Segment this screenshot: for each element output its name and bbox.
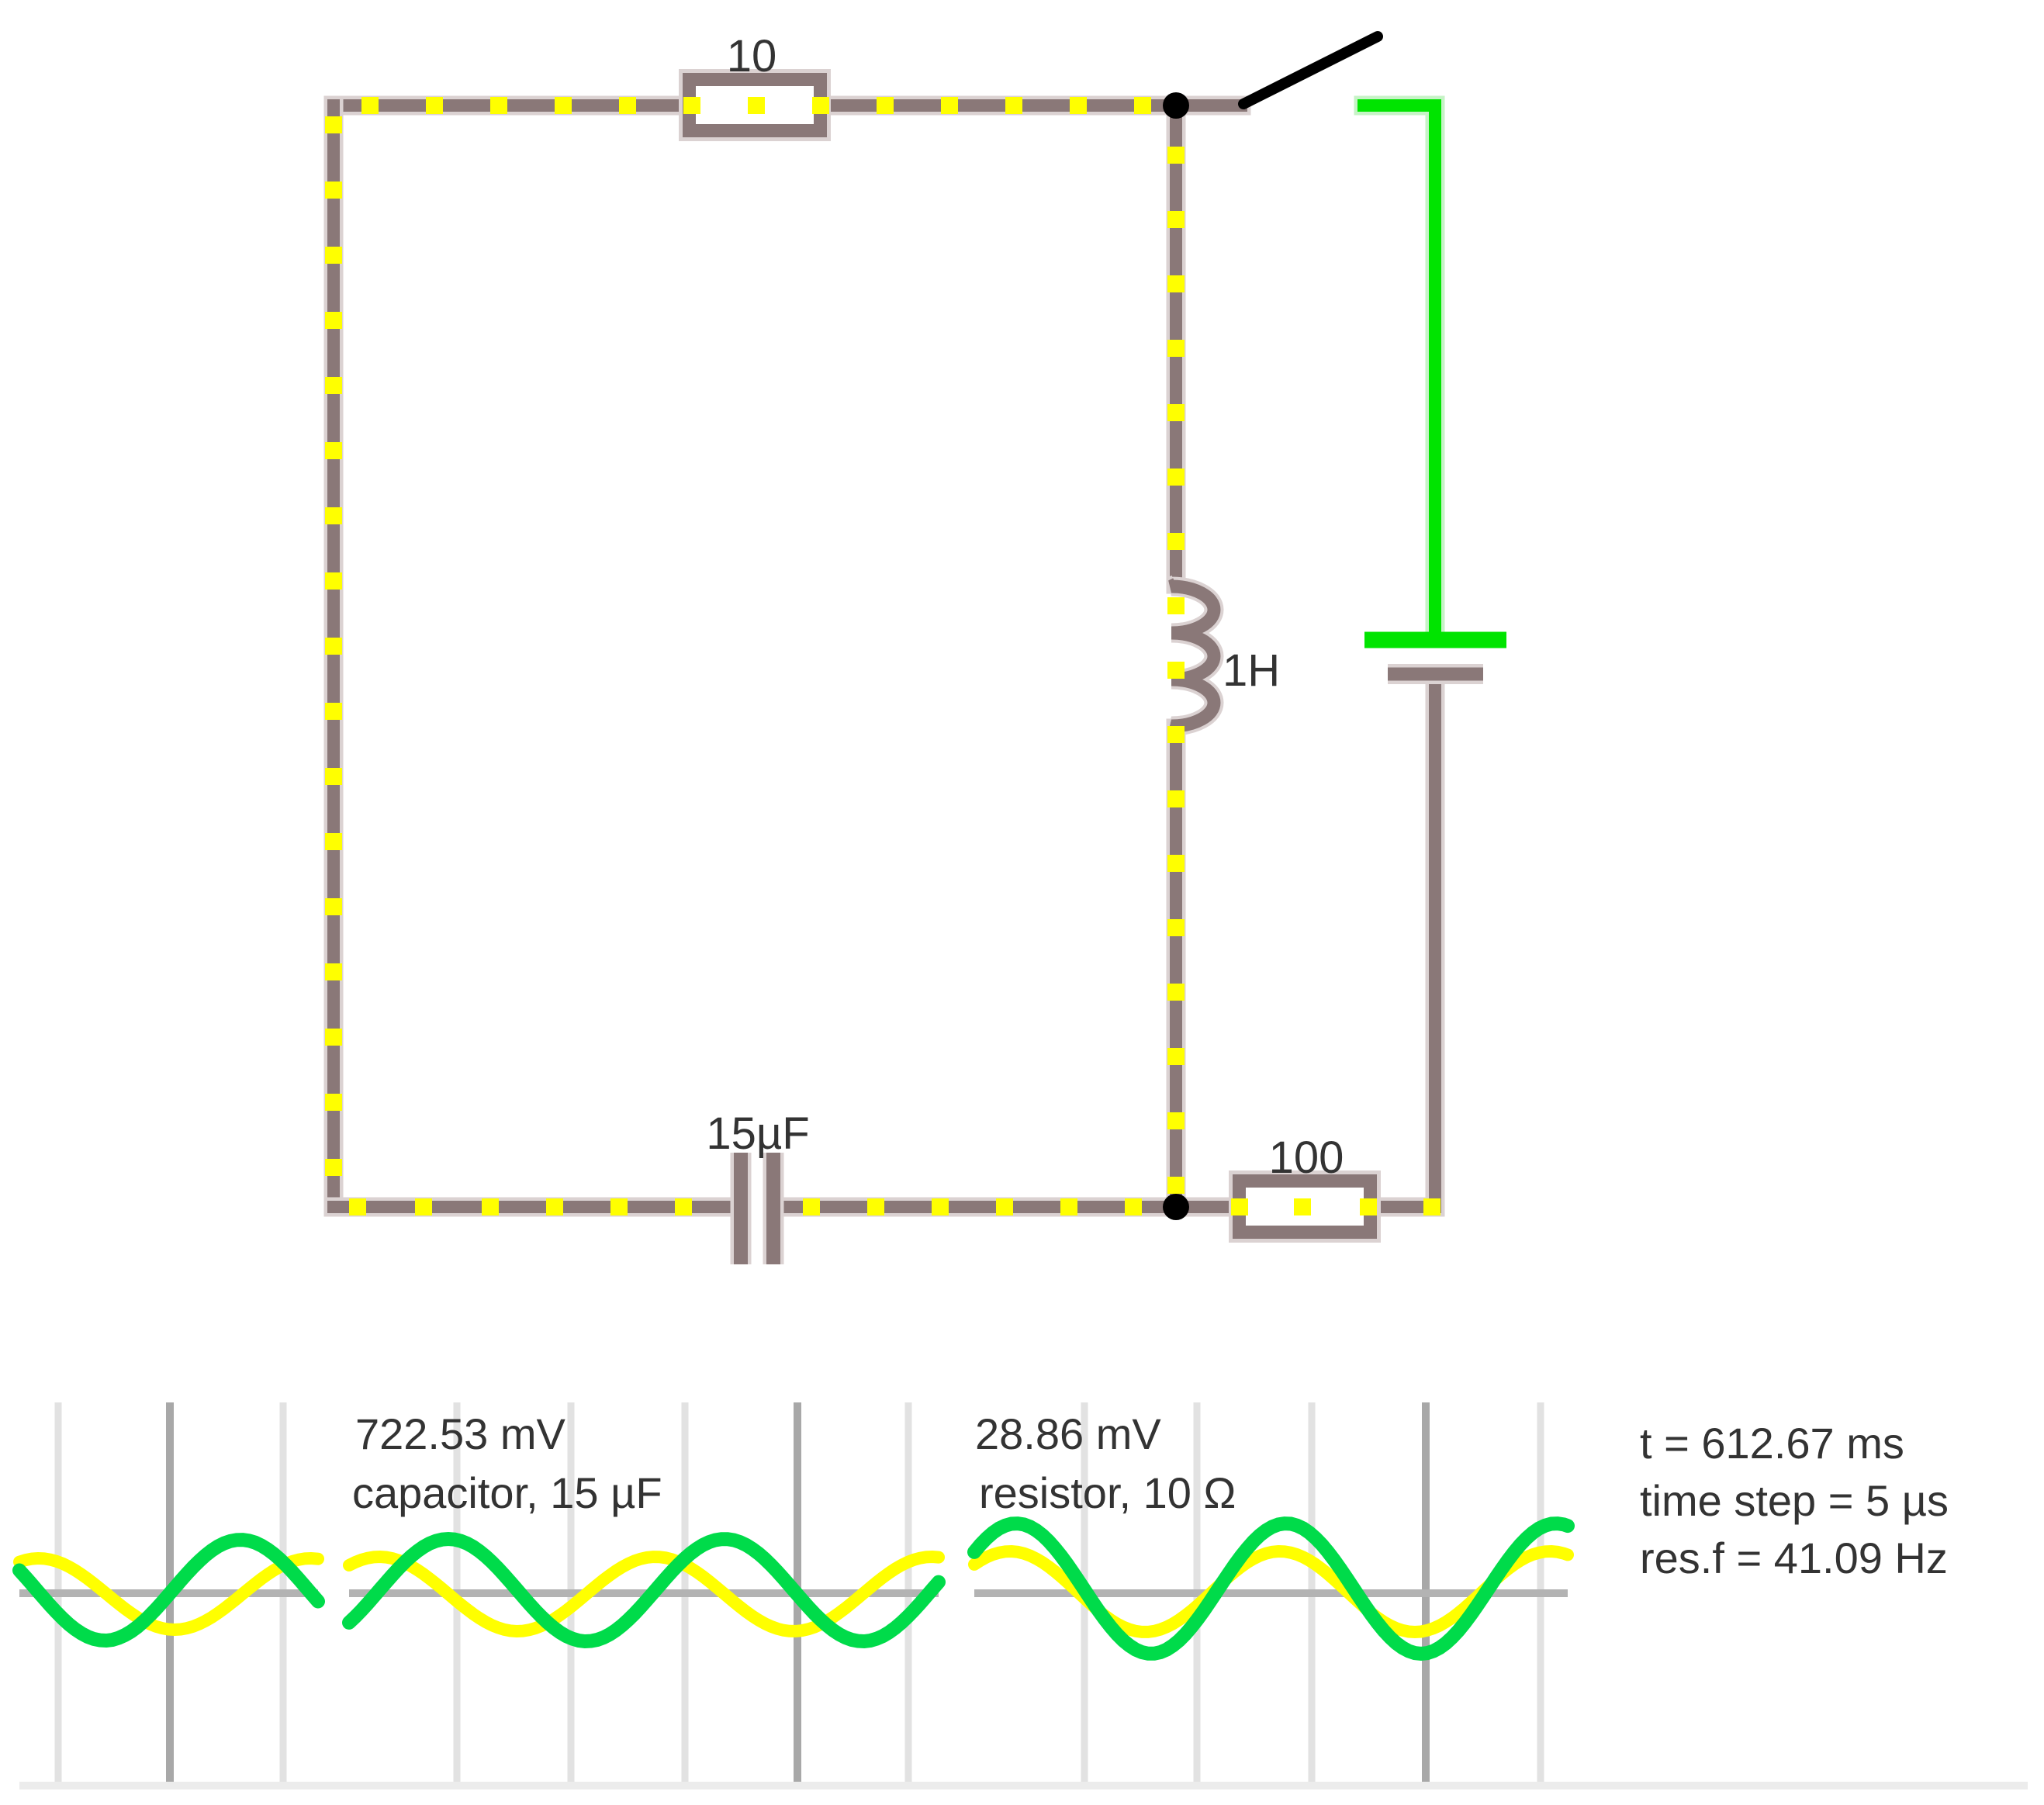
wire: bottom run, capacitor right plate through node B and R2 to bottom-right corner <box>779 1198 1435 1217</box>
scope bottom divider line <box>19 1782 2028 1789</box>
scope panel 1 current trace (yellow) <box>19 1558 318 1630</box>
wire: inductor bottom down to node B <box>1167 728 1186 1207</box>
wire: top run from top-left corner through R1 to switch pivot <box>334 96 1241 116</box>
voltage source V1 negative terminal bar (short, grey) <box>1388 664 1483 684</box>
svg-text:resistor, 10 Ω: resistor, 10 Ω <box>979 1468 1236 1517</box>
resistor R2 (100) box <box>1240 1181 1371 1233</box>
svg-text:100: 100 <box>1269 1132 1344 1183</box>
scope panel 3 current trace (yellow) <box>974 1551 1568 1632</box>
wire: bottom run, corner to capacitor left plate <box>334 1198 734 1217</box>
resistor R1 (10) box <box>690 80 821 131</box>
node A junction dot (top, x=1516) <box>1163 92 1189 119</box>
inductor L1 (1H) coil <box>1171 584 1214 728</box>
svg-text:time step = 5 µs: time step = 5 µs <box>1640 1476 1949 1525</box>
scope panel 3 voltage trace (green) <box>974 1523 1568 1654</box>
voltage source V1 positive terminal bar (long, green) <box>1364 632 1506 648</box>
current dots on middle wire through L1 <box>1167 147 1185 1194</box>
svg-text:res.f = 41.09 Hz: res.f = 41.09 Hz <box>1640 1534 1948 1582</box>
wire: left vertical run <box>324 105 344 1207</box>
capacitor C1 (15uF) right plate <box>763 1153 784 1264</box>
svg-text:28.86 mV: 28.86 mV <box>975 1409 1161 1458</box>
capacitor C1 (15uF) left plate <box>731 1153 752 1264</box>
voltage source V1 negative lead (grey wire down to bottom-right corner) <box>1426 674 1445 1207</box>
scope grid lines (dark) <box>170 1402 1426 1782</box>
svg-text:10: 10 <box>727 31 777 81</box>
current dots on top wire <box>361 97 1151 114</box>
voltage source V1 positive lead (green wire from switch contact) <box>1364 105 1435 635</box>
current dots on R2 branch to bottom-right corner <box>1231 1198 1440 1215</box>
scope panel 1 voltage trace (green) <box>19 1540 318 1641</box>
current dots on left wire <box>325 116 342 1176</box>
switch SW1 lever (open) <box>1243 36 1378 104</box>
scope panel 3 zero line <box>974 1589 1568 1597</box>
scope panel 1 zero line <box>19 1589 318 1597</box>
wire: middle vertical, node A down to inductor top <box>1167 105 1186 584</box>
svg-text:t = 612.67 ms: t = 612.67 ms <box>1640 1419 1904 1468</box>
svg-text:1H: 1H <box>1223 645 1280 696</box>
svg-text:722.53 mV: 722.53 mV <box>355 1409 565 1458</box>
scope panel 2 current trace (yellow) <box>349 1557 939 1631</box>
svg-text:15µF: 15µF <box>706 1108 809 1159</box>
current dots on bottom wire <box>349 1198 1142 1215</box>
node B junction dot (bottom, x=1516) <box>1163 1194 1189 1220</box>
scope panel 2 voltage trace (green) <box>349 1539 939 1641</box>
scope grid lines (light) <box>58 1402 1541 1782</box>
scope panel 2 zero line <box>349 1589 939 1597</box>
svg-text:capacitor, 15 µF: capacitor, 15 µF <box>352 1468 662 1517</box>
